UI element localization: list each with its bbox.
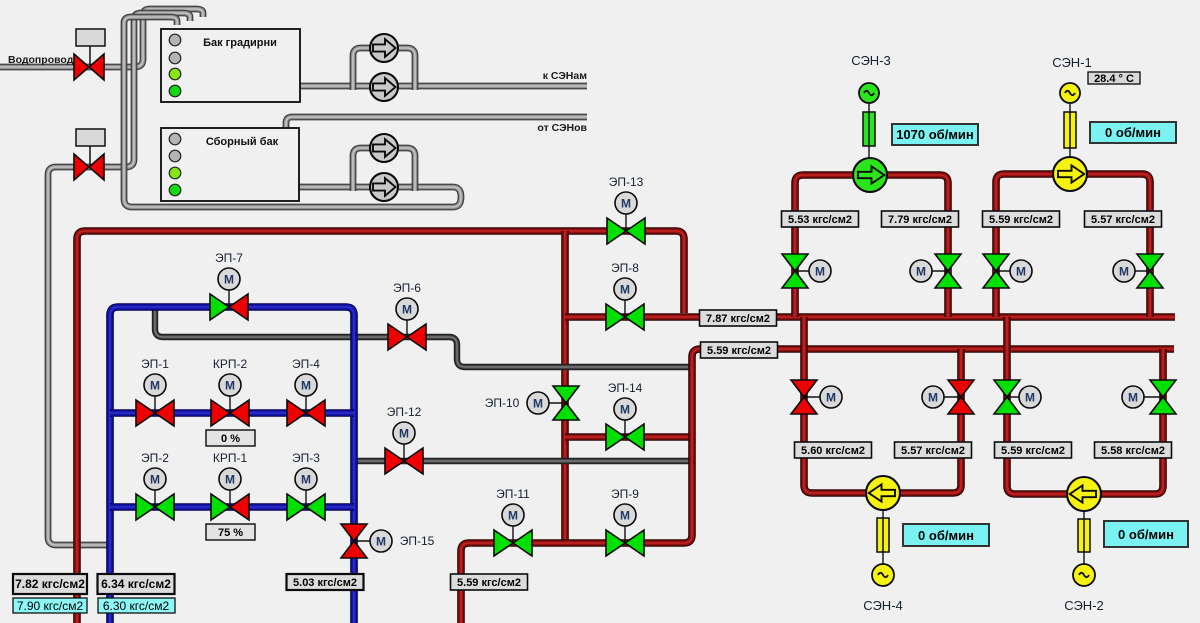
shaft СЭН-1 bbox=[1064, 103, 1076, 158]
indicator lamp tank1-2 bbox=[169, 52, 181, 64]
wire: blue row 1 bbox=[110, 409, 354, 417]
svg-text:М: М bbox=[150, 473, 160, 487]
valve в3 СЭН-1 left bbox=[983, 254, 1032, 288]
svg-text:М: М bbox=[916, 265, 926, 279]
svg-text:7.87 кгс/см2: 7.87 кгс/см2 bbox=[706, 313, 770, 325]
label 0 об/мин СЭН-1 bbox=[1090, 122, 1176, 143]
wire: СЭН-4 suction loop bbox=[804, 317, 961, 493]
label 0 % bbox=[206, 430, 255, 446]
svg-text:7.90 кгс/см2: 7.90 кгс/см2 bbox=[17, 599, 84, 613]
svg-text:Водопровод: Водопровод bbox=[8, 54, 74, 66]
indicator lamp tank1-4 bbox=[169, 85, 181, 97]
svg-text:6.34 кгс/см2: 6.34 кгс/см2 bbox=[101, 577, 171, 591]
svg-text:М: М bbox=[1128, 391, 1138, 405]
motor СЭН-1 bbox=[1060, 83, 1080, 103]
motor СЭН-4 bbox=[872, 564, 894, 586]
valve в5 СЭН-4 left bbox=[791, 380, 842, 414]
svg-text:ЭП-1: ЭП-1 bbox=[141, 357, 169, 371]
wire: tank 2 feed line via valve 2, left drop at x48 and riser hook 2 bbox=[48, 13, 190, 545]
label 5.59 кгс/см2 bbox=[995, 442, 1072, 458]
svg-text:М: М bbox=[301, 379, 311, 393]
indicator lamp tank1-1 bbox=[169, 34, 181, 46]
valve water supply 2 with actuator bbox=[74, 129, 105, 180]
svg-text:75 %: 75 % bbox=[218, 527, 243, 539]
wire: red 5.59 header down to ЭП-9/ЭП-11 line and drop to bottom bbox=[461, 349, 1174, 623]
svg-text:ЭП-7: ЭП-7 bbox=[215, 251, 243, 265]
label 5.57 кгс/см2 bbox=[1085, 211, 1162, 227]
svg-text:М: М bbox=[150, 379, 160, 393]
svg-text:5.53 кгс/см2: 5.53 кгс/см2 bbox=[788, 214, 852, 226]
svg-text:ЭП-8: ЭП-8 bbox=[611, 261, 639, 275]
wire: pump bypass loop 1 bbox=[353, 48, 415, 90]
wire: СЭН-2 suction loop bbox=[1007, 317, 1163, 494]
label 6.34 кгс/см2 bbox=[98, 574, 175, 594]
svg-text:М: М bbox=[225, 379, 235, 393]
label 28.4 ° C bbox=[1088, 72, 1140, 85]
svg-text:М: М bbox=[1119, 265, 1129, 279]
indicator lamp tank2-1 bbox=[169, 133, 181, 145]
svg-text:от СЭНов: от СЭНов bbox=[537, 122, 587, 134]
svg-text:СЭН-1: СЭН-1 bbox=[1052, 55, 1092, 70]
valve ЭП-9 bbox=[606, 487, 644, 556]
svg-text:М: М bbox=[620, 283, 630, 297]
pump bypass P4 bbox=[370, 173, 398, 201]
valve ЭП-11 bbox=[494, 487, 532, 556]
label 7.87 кгс/см2 bbox=[700, 310, 777, 326]
pump СЭН-1 bbox=[1053, 157, 1087, 191]
label 5.59 кгс/см2 bbox=[983, 211, 1060, 227]
wire: к СЭНам supply line from Бак градирни bbox=[300, 83, 587, 90]
svg-text:ЭП-12: ЭП-12 bbox=[387, 405, 422, 419]
wire: red ЭП-8 line and 7.87 header bbox=[565, 313, 1175, 321]
label 7.82 кгс/см2 bbox=[13, 574, 87, 594]
shaft СЭН-3 bbox=[863, 103, 875, 159]
pump bypass P1 bbox=[370, 34, 398, 62]
valve КРП-1 bbox=[211, 451, 249, 520]
svg-text:М: М bbox=[621, 197, 631, 211]
valve в6 СЭН-4 right bbox=[922, 380, 974, 414]
svg-text:5.57 кгс/см2: 5.57 кгс/см2 bbox=[1091, 214, 1155, 226]
valve в7 СЭН-2 left bbox=[994, 380, 1041, 414]
indicator lamp tank2-2 bbox=[169, 150, 181, 162]
valve water supply 1 with actuator bbox=[74, 29, 105, 80]
label 6.30 кгс/см2 bbox=[98, 598, 175, 613]
svg-text:5.60 кгс/см2: 5.60 кгс/см2 bbox=[801, 445, 865, 457]
pump СЭН-2 bbox=[1067, 477, 1101, 511]
valve ЭП-14 bbox=[606, 381, 644, 450]
svg-text:1070 об/мин: 1070 об/мин bbox=[896, 127, 974, 142]
svg-text:ЭП-2: ЭП-2 bbox=[141, 451, 169, 465]
pump СЭН-3 bbox=[853, 158, 887, 192]
svg-text:ЭП-4: ЭП-4 bbox=[292, 357, 320, 371]
motor СЭН-3 bbox=[859, 83, 879, 103]
svg-text:М: М bbox=[402, 303, 412, 317]
wire: blue row 2 bbox=[110, 503, 354, 511]
svg-text:ЭП-11: ЭП-11 bbox=[496, 487, 530, 501]
label 7.79 кгс/см2 bbox=[882, 211, 959, 227]
svg-text:ЭП-6: ЭП-6 bbox=[393, 281, 421, 295]
pump bypass P3 bbox=[370, 134, 398, 162]
wire: dark line through ЭП-6 from blue header to red riser bbox=[155, 304, 690, 367]
svg-text:КРП-1: КРП-1 bbox=[213, 451, 248, 465]
wire: СЭН-1 discharge loop bbox=[996, 174, 1150, 317]
valve ЭП-2 bbox=[136, 451, 174, 520]
svg-text:ЭП-9: ЭП-9 bbox=[611, 487, 639, 501]
svg-text:7.82 кгс/см2: 7.82 кгс/см2 bbox=[15, 577, 85, 591]
label 5.59 кгс/см2 bbox=[701, 342, 778, 358]
svg-text:7.79 кгс/см2: 7.79 кгс/см2 bbox=[888, 214, 952, 226]
wire: dark line through ЭП-12 from blue riser to red riser bbox=[354, 458, 690, 464]
svg-text:М: М bbox=[620, 403, 630, 417]
svg-text:СЭН-3: СЭН-3 bbox=[851, 53, 891, 68]
svg-text:СЭН-2: СЭН-2 bbox=[1064, 598, 1104, 613]
valve ЭП-8 bbox=[606, 261, 644, 330]
indicator lamp tank2-3 bbox=[169, 167, 181, 179]
svg-text:5.59 кгс/см2: 5.59 кгс/см2 bbox=[707, 345, 771, 357]
valve ЭП-4 bbox=[287, 357, 325, 426]
svg-text:0 %: 0 % bbox=[221, 433, 240, 445]
wire: от СЭНов return line into Сборный бак bbox=[286, 117, 587, 128]
shaft СЭН-4 bbox=[877, 510, 889, 564]
valve в8 СЭН-2 right bbox=[1122, 380, 1176, 414]
shaft СЭН-2 bbox=[1078, 511, 1090, 564]
svg-text:М: М bbox=[376, 535, 386, 549]
label 1070 об/мин bbox=[892, 124, 978, 145]
svg-text:ЭП-13: ЭП-13 bbox=[609, 175, 644, 189]
svg-text:28.4 ° C: 28.4 ° C bbox=[1094, 73, 1134, 85]
valve ЭП-7 bbox=[210, 251, 248, 320]
svg-text:5.03 кгс/см2: 5.03 кгс/см2 bbox=[293, 577, 357, 589]
svg-text:СЭН-4: СЭН-4 bbox=[863, 598, 903, 613]
svg-text:М: М bbox=[301, 473, 311, 487]
wire: red vertical manifold x565 bbox=[561, 231, 569, 543]
svg-text:ЭП-10: ЭП-10 bbox=[485, 396, 520, 410]
valve ЭП-12 bbox=[385, 405, 423, 474]
valve ЭП-15 bbox=[341, 524, 435, 558]
svg-text:5.59 кгс/см2: 5.59 кгс/см2 bbox=[1001, 445, 1065, 457]
pump bypass P2 bbox=[370, 73, 398, 101]
wire: red ЭП-14 crossover line bbox=[565, 433, 692, 441]
svg-text:М: М bbox=[1025, 391, 1035, 405]
valve ЭП-6 bbox=[388, 281, 426, 350]
valve в2 СЭН-3 right bbox=[910, 254, 961, 288]
svg-text:0 об/мин: 0 об/мин bbox=[1118, 527, 1174, 542]
svg-text:5.58 кгс/см2: 5.58 кгс/см2 bbox=[1101, 445, 1165, 457]
svg-text:5.57 кгс/см2: 5.57 кгс/см2 bbox=[901, 445, 965, 457]
svg-text:М: М bbox=[508, 509, 518, 523]
svg-text:М: М bbox=[1016, 265, 1026, 279]
tank Бак градирни bbox=[161, 29, 300, 102]
label 5.59 кгс/см2 bbox=[451, 574, 528, 590]
svg-text:5.59 кгс/см2: 5.59 кгс/см2 bbox=[989, 214, 1053, 226]
svg-text:ЭП-3: ЭП-3 bbox=[292, 451, 320, 465]
valve ЭП-1 bbox=[136, 357, 174, 426]
label 5.03 кгс/см2 bbox=[287, 574, 364, 590]
label 0 об/мин СЭН-2 bbox=[1104, 521, 1188, 547]
label 5.60 кгс/см2 bbox=[795, 442, 872, 458]
valve в4 СЭН-1 right bbox=[1113, 254, 1163, 288]
label 0 об/мин СЭН-4 bbox=[903, 524, 989, 546]
label 7.90 кгс/см2 bbox=[13, 598, 87, 613]
motor СЭН-2 bbox=[1073, 564, 1095, 586]
pump СЭН-4 bbox=[866, 476, 900, 510]
valve в1 СЭН-3 left bbox=[782, 254, 831, 288]
valve ЭП-10 bbox=[485, 386, 579, 420]
svg-text:М: М bbox=[224, 273, 234, 287]
label 75 % bbox=[206, 524, 255, 540]
label 5.53 кгс/см2 bbox=[782, 211, 859, 227]
svg-text:М: М bbox=[533, 397, 543, 411]
label 5.57 кгс/см2 bbox=[895, 442, 972, 458]
svg-text:М: М bbox=[399, 427, 409, 441]
svg-text:М: М bbox=[826, 391, 836, 405]
label 5.58 кгс/см2 bbox=[1095, 442, 1172, 458]
svg-text:М: М bbox=[815, 265, 825, 279]
wire: blue recirculation loop bbox=[110, 307, 354, 623]
svg-text:М: М bbox=[620, 509, 630, 523]
svg-text:ЭП-15: ЭП-15 bbox=[400, 534, 435, 548]
wire: СЭН-3 discharge loop bbox=[795, 175, 948, 317]
indicator lamp tank1-3 bbox=[169, 68, 181, 80]
indicator lamp tank2-4 bbox=[169, 184, 181, 196]
svg-text:Бак градирни: Бак градирни bbox=[203, 37, 277, 49]
wire: pump return line to riser hook 1 bbox=[124, 17, 461, 207]
tank Сборный бак bbox=[161, 128, 299, 201]
svg-text:6.30 кгс/см2: 6.30 кгс/см2 bbox=[103, 599, 170, 613]
svg-text:М: М bbox=[928, 391, 938, 405]
svg-text:КРП-2: КРП-2 bbox=[213, 357, 248, 371]
wire: water supply line (Водопровод) rising to hook 3 bbox=[0, 9, 203, 67]
svg-text:0 об/мин: 0 об/мин bbox=[918, 528, 974, 543]
wire: Сборный бак outlet line to U-turn bbox=[299, 187, 461, 197]
svg-text:к СЭНам: к СЭНам bbox=[543, 70, 588, 82]
svg-text:0 об/мин: 0 об/мин bbox=[1105, 125, 1161, 140]
wire: pump bypass loop 2 bbox=[353, 148, 415, 191]
svg-text:ЭП-14: ЭП-14 bbox=[608, 381, 643, 395]
valve КРП-2 bbox=[211, 357, 249, 426]
valve ЭП-13 bbox=[607, 175, 645, 244]
wire: red main supply header from bottom-left riser across top bbox=[77, 231, 684, 623]
svg-text:Сборный бак: Сборный бак bbox=[206, 136, 279, 148]
svg-text:5.59 кгс/см2: 5.59 кгс/см2 bbox=[457, 577, 521, 589]
svg-text:М: М bbox=[225, 473, 235, 487]
valve ЭП-3 bbox=[287, 451, 325, 520]
